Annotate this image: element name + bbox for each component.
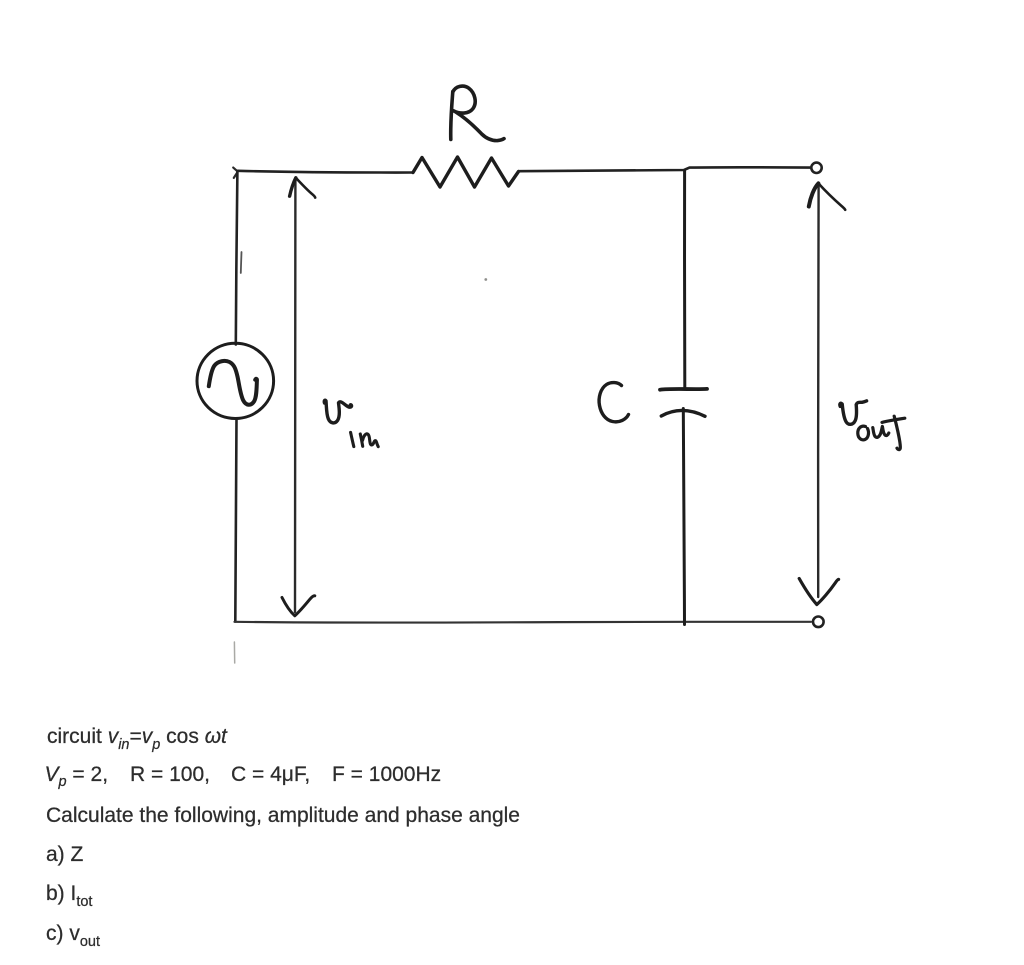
problem text: [47, 726, 227, 750]
arrow Vin shaft: [294, 180, 297, 612]
wire top-left segment: [238, 171, 413, 173]
wire bottom-left tail: [233, 642, 235, 663]
label Vout subscript out: [858, 416, 905, 449]
arrow Vin head bottom: [282, 596, 315, 616]
wire left lower: [235, 419, 236, 622]
wire top-right segment: [519, 167, 811, 171]
corner tick top-left lower: [234, 173, 237, 178]
arrow Vout head top: [809, 183, 845, 209]
arrow Vout shaft: [817, 185, 820, 597]
capacitor C1 top plate: [660, 387, 707, 392]
terminal top-right: [811, 163, 821, 173]
label R: [451, 86, 504, 141]
paper speck: [484, 278, 487, 281]
source V1 sine squiggle: [209, 361, 257, 405]
corner tick top-left upper: [233, 168, 237, 172]
source V1 circle: [197, 343, 274, 418]
capacitor C1 bottom lead: [683, 409, 684, 625]
terminal bottom-right: [813, 617, 824, 628]
label Vout script v: [840, 401, 867, 424]
label Vin script v: [324, 400, 351, 423]
wire left upper: [236, 171, 238, 345]
capacitor C1 top lead: [683, 171, 686, 387]
arrow Vin head top: [290, 178, 316, 198]
label C: [599, 383, 628, 422]
arrow Vout head bottom: [799, 579, 838, 605]
wire bottom: [235, 621, 812, 624]
resistor R: [413, 157, 519, 187]
label Vin subscript in: [351, 432, 379, 446]
wire left doubled stroke: [240, 252, 243, 273]
capacitor C1 bottom plate: [661, 410, 705, 416]
